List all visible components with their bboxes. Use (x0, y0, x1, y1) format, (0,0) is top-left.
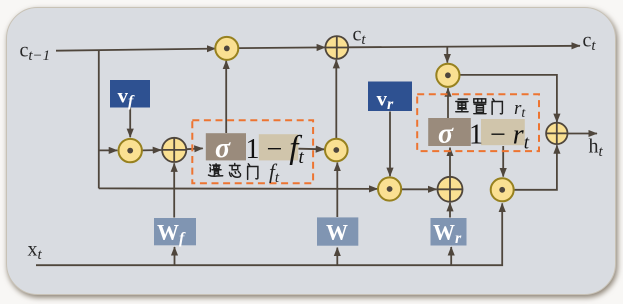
label cjk yi (208, 164, 222, 176)
add node output add (546, 123, 567, 144)
wire middle bus to multiply (99, 187, 378, 190)
multiply node output multiply (491, 178, 514, 201)
wire c_t-1 into top multiply (56, 49, 215, 51)
multiply node forget path multiply (119, 139, 142, 162)
add node forget add (162, 138, 186, 162)
label cjk men (248, 164, 258, 180)
wire x_t into W (336, 248, 338, 266)
wire sigma1 up to top multiply (225, 61, 227, 133)
wire x_t into W_r (450, 247, 452, 265)
wire one-minus-f to mid multiply (299, 148, 325, 151)
wire one-minus-r down to right multiply (502, 146, 504, 177)
dashed frame forget gate (192, 120, 313, 183)
add node cell add (325, 36, 348, 59)
wire c_t branch down to reset multiply (446, 47, 448, 63)
box sigma2 (428, 118, 471, 146)
svg-text:1 − ft: 1 − ft (246, 130, 305, 168)
svg-text:1 − rt: 1 − rt (469, 120, 530, 154)
multiply node reset top multiply (436, 64, 459, 87)
label cjk wang (229, 164, 240, 178)
label cjk zhong (456, 99, 468, 112)
multiply node reset in multiply (378, 177, 401, 200)
box W_r (431, 218, 467, 246)
wire mid add up into sigma2 (449, 148, 451, 177)
wire W_r up to mid add (449, 203, 451, 218)
multiply node cell multiply (215, 37, 238, 60)
box sigma1 (206, 133, 246, 160)
wire top add to c_t output (348, 46, 580, 48)
dashed frame reset gate (417, 94, 539, 151)
wire v_f down arrow (129, 108, 131, 138)
label cjk men2 (492, 99, 502, 115)
wire left branch down (98, 50, 100, 188)
svg-text:W: W (326, 220, 348, 245)
wire left multiply to left add (142, 149, 161, 151)
wire reset multiply right then down to output add (459, 75, 557, 122)
wire branch into left multiply (99, 149, 118, 151)
wire top multiply to top add (238, 46, 325, 49)
wire W_f up to left add (173, 163, 175, 217)
wire left add into sigma1 (187, 147, 203, 150)
box W_f (154, 218, 196, 245)
wire x_t into W_f (174, 247, 176, 265)
svg-text:σ: σ (215, 133, 231, 164)
wire W up to mid multiply (336, 163, 338, 217)
wire right multiply right then up to output add (514, 145, 557, 190)
wire mid multiply to mid add (401, 188, 436, 190)
box v_r (368, 82, 412, 112)
add node reset add (438, 177, 463, 202)
label cjk zhi (474, 99, 486, 114)
box v_f (110, 80, 150, 108)
box W (317, 217, 358, 245)
wire sigma2 up to reset multiply (447, 88, 449, 118)
wire output add to h_t (568, 133, 597, 135)
svg-text:σ: σ (438, 119, 454, 150)
wire v_r down arrow (389, 112, 391, 177)
box one-minus-r (481, 119, 525, 145)
box one-minus-f (259, 134, 298, 160)
multiply node candidate multiply (325, 139, 348, 162)
wire mid multiply up to top add (335, 60, 337, 139)
wire x_t bottom bus into right multiply (36, 203, 502, 265)
